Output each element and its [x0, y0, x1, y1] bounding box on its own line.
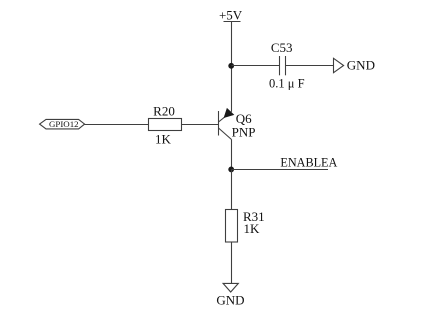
- port GPIO12 flag: [40, 119, 85, 128]
- wire +5V rail down to transistor emitter: [231, 22, 233, 112]
- power +5V bar: [224, 21, 241, 23]
- transistor Q6 base line: [218, 111, 220, 136]
- svg-text:GND: GND: [216, 292, 244, 307]
- svg-text:+5V: +5V: [219, 8, 243, 23]
- junction dot at capacitor branch: [228, 63, 234, 69]
- label C53: [271, 40, 293, 55]
- resistor R31 body: [226, 210, 238, 243]
- label R31: [243, 209, 265, 224]
- value label 0.1 uF: [269, 77, 305, 91]
- transistor Q6 collector line: [219, 128, 232, 140]
- wire ENABLEA stub: [232, 169, 329, 171]
- label GPIO12: [49, 120, 79, 129]
- label Q6: [236, 111, 252, 126]
- wire collector down to ENABLEA node: [231, 140, 233, 170]
- value label 1K (R31): [244, 221, 261, 236]
- svg-text:C53: C53: [271, 40, 293, 55]
- svg-text:R20: R20: [153, 104, 175, 119]
- label R20: [153, 104, 175, 119]
- svg-text:GPIO12: GPIO12: [49, 120, 79, 129]
- svg-text:0.1 μ F: 0.1 μ F: [269, 77, 305, 91]
- ground symbol right (triangle): [334, 58, 344, 72]
- wire GPIO12 to resistor R20: [85, 124, 149, 126]
- capacitor C53 plates: [280, 56, 286, 75]
- svg-text:1K: 1K: [244, 221, 261, 236]
- value label 1K (R20): [155, 132, 172, 147]
- label PNP: [232, 125, 256, 140]
- ground symbol bottom (triangle): [223, 283, 238, 292]
- label GND bottom: [216, 292, 244, 307]
- svg-text:ENABLEA: ENABLEA: [280, 155, 337, 169]
- label GND right: [347, 58, 375, 73]
- power +5V label: [219, 8, 243, 23]
- wire R20 to transistor base: [182, 124, 219, 126]
- svg-text:1K: 1K: [155, 132, 172, 147]
- transistor Q6 emitter arrow (PNP): [224, 108, 235, 118]
- junction dot ENABLEA node: [228, 167, 234, 173]
- wire capacitor to right GND symbol: [286, 65, 334, 67]
- transistor Q6 emitter line: [219, 112, 232, 122]
- wire R31 to ground: [231, 242, 233, 283]
- svg-text:GND: GND: [347, 58, 375, 73]
- svg-text:PNP: PNP: [232, 125, 256, 140]
- net label ENABLEA: [280, 155, 337, 169]
- wire node down to resistor R31: [231, 169, 233, 209]
- wire node to capacitor C53 left plate: [232, 65, 280, 67]
- resistor R20 body: [149, 119, 182, 131]
